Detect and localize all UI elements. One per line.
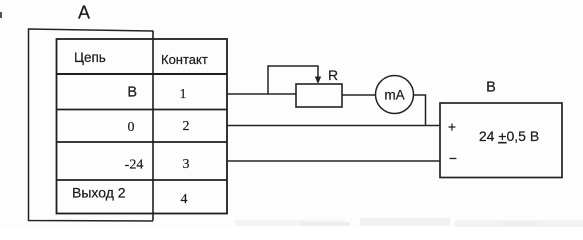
svg-text:Контакт: Контакт <box>161 52 208 67</box>
scan artifact bottom band <box>235 218 583 227</box>
connector table row line 2 <box>56 141 227 143</box>
wire resistor to milliammeter <box>342 94 376 96</box>
svg-text:Цепь: Цепь <box>74 50 106 65</box>
connector table row line 3 <box>56 179 227 181</box>
svg-text:24 +0,5 В: 24 +0,5 В <box>479 128 539 144</box>
svg-text:3: 3 <box>183 157 190 172</box>
connector table row line 1 <box>56 109 227 111</box>
svg-text:В: В <box>127 85 137 101</box>
svg-text:4: 4 <box>181 192 188 207</box>
wire pin 3 to source minus <box>227 160 440 162</box>
svg-text:0: 0 <box>128 120 135 135</box>
svg-text:−: − <box>449 150 457 166</box>
svg-text:2: 2 <box>183 119 190 134</box>
svg-text:-24: -24 <box>125 158 144 173</box>
svg-text:mA: mA <box>384 88 404 103</box>
connector A outline <box>29 29 154 221</box>
scan artifact left edge <box>0 12 2 18</box>
wiper feedback wire <box>268 66 318 94</box>
svg-text:Выход 2: Выход 2 <box>72 185 126 201</box>
resistor R body <box>296 84 342 107</box>
power source B body <box>440 103 562 178</box>
svg-text:R: R <box>328 67 338 83</box>
connector table header separator <box>56 73 227 75</box>
wiper arrowhead <box>315 77 321 85</box>
wire pin 1 to resistor <box>227 93 296 95</box>
milliammeter PA1 body <box>376 76 414 114</box>
svg-text:+: + <box>448 119 456 135</box>
svg-text:B: B <box>486 80 496 96</box>
svg-text:A: A <box>78 3 90 23</box>
wire pin 2 to source plus <box>227 125 440 127</box>
svg-text:1: 1 <box>180 87 187 102</box>
connector table column divider <box>152 31 154 221</box>
wire milliammeter to plus node <box>414 95 426 126</box>
connector table border <box>57 39 228 214</box>
